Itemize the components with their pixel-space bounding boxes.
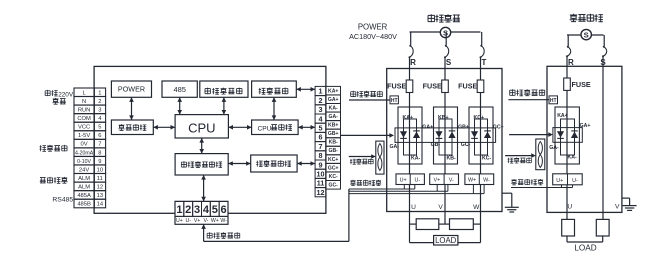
svg-text:1: 1 [98,90,101,96]
svg-text:S: S [446,58,452,67]
svg-text:KA+: KA+ [557,113,568,119]
svg-text:KC+: KC+ [328,157,338,163]
svg-text:KC-: KC- [482,155,491,161]
svg-text:U-: U- [572,178,578,184]
svg-text:5: 5 [98,125,101,131]
svg-text:4-20mA: 4-20mA [75,150,94,156]
svg-text:FUSE: FUSE [423,82,442,91]
svg-text:HT: HT [550,98,557,104]
svg-text:GA-: GA- [390,144,400,150]
svg-text:GA+: GA+ [422,125,433,131]
svg-text:3: 3 [98,108,101,114]
svg-text:0-10V: 0-10V [77,159,91,165]
svg-text:U-: U- [185,218,191,224]
svg-text:LOAD: LOAD [435,236,457,245]
svg-text:W+: W+ [468,178,476,184]
svg-text:4: 4 [319,114,323,123]
svg-text:ALM: ALM [78,185,90,191]
svg-text:VCC: VCC [78,125,90,131]
svg-text:U: U [411,204,416,211]
svg-text:KC+: KC+ [474,115,485,121]
svg-text:RUN: RUN [78,108,91,114]
svg-text:W: W [473,204,480,211]
svg-text:RS485: RS485 [52,197,73,204]
svg-text:220V: 220V [58,91,74,98]
svg-text:KB-: KB- [329,140,338,146]
svg-text:KC-: KC- [329,174,338,180]
svg-text:V+: V+ [434,178,441,184]
svg-text:11: 11 [97,176,103,182]
svg-text:12: 12 [317,188,325,197]
svg-text:2: 2 [98,99,101,105]
svg-text:AC180V~480V: AC180V~480V [349,32,397,41]
svg-text:N: N [82,99,86,105]
svg-text:485A: 485A [77,193,91,199]
svg-text:485: 485 [173,85,186,94]
svg-text:7: 7 [98,142,101,148]
svg-text:U+: U+ [400,178,407,184]
svg-text:KA+: KA+ [328,88,338,94]
svg-text:V: V [615,204,620,211]
svg-text:KB+: KB+ [438,115,449,121]
svg-text:FUSE: FUSE [458,82,477,91]
svg-text:V: V [438,204,443,211]
svg-text:GA-: GA- [549,145,559,151]
svg-text:1-5V: 1-5V [78,133,90,139]
svg-text:GB+: GB+ [458,125,469,131]
svg-text:8: 8 [98,150,101,156]
svg-text:9: 9 [319,160,323,169]
svg-text:V+: V+ [194,218,201,224]
svg-text:GB-: GB- [431,142,441,148]
svg-text:LOAD: LOAD [574,244,596,253]
svg-text:W-: W- [483,178,490,184]
svg-text:GA-: GA- [329,114,339,120]
svg-text:KA-: KA- [411,155,420,161]
svg-text:FUSE: FUSE [387,82,406,91]
svg-text:U+: U+ [556,178,563,184]
svg-text:U-: U- [414,178,420,184]
svg-text:W+: W+ [211,218,219,224]
svg-text:9: 9 [98,159,101,165]
svg-text:U: U [567,204,572,211]
svg-text:2: 2 [319,96,323,105]
svg-text:3: 3 [194,204,200,216]
svg-text:4: 4 [203,204,210,216]
svg-text:14: 14 [97,202,104,208]
svg-text:KB+: KB+ [328,123,338,129]
svg-text:S: S [443,28,448,37]
svg-text:8: 8 [319,151,323,160]
svg-text:GC-: GC- [329,183,339,189]
svg-text:7: 7 [319,142,323,151]
svg-text:3: 3 [319,105,323,114]
svg-text:2: 2 [185,204,191,216]
svg-text:FUSE: FUSE [572,80,591,89]
svg-text:10: 10 [317,170,325,179]
svg-text:POWER: POWER [358,23,388,32]
svg-text:CPU: CPU [188,120,215,135]
svg-text:KA+: KA+ [403,115,414,121]
svg-text:485B: 485B [77,202,91,208]
svg-text:W-: W- [220,218,227,224]
svg-text:6: 6 [221,204,227,216]
svg-text:HT: HT [391,98,398,104]
svg-text:CPU: CPU [258,126,272,133]
svg-text:24V: 24V [79,167,89,173]
svg-text:1: 1 [319,87,323,96]
svg-text:1: 1 [176,204,182,216]
svg-text:KA-: KA- [329,106,338,112]
svg-text:GC+: GC+ [493,125,504,131]
svg-text:T: T [482,58,487,67]
svg-text:0V: 0V [81,142,88,148]
svg-text:ALM: ALM [78,176,90,182]
svg-text:COM: COM [77,116,91,122]
svg-text:5: 5 [319,124,323,133]
svg-text:13: 13 [97,193,103,199]
svg-text:KA-: KA- [568,154,577,160]
svg-text:V-: V- [449,178,454,184]
svg-text:V-: V- [203,218,208,224]
svg-text:11: 11 [317,179,325,188]
svg-text:6: 6 [98,133,101,139]
svg-text:10: 10 [97,167,103,173]
svg-text:GB-: GB- [329,148,339,154]
svg-text:POWER: POWER [118,85,145,94]
svg-text:R: R [410,58,416,67]
svg-text:S: S [584,30,589,39]
svg-text:GC-: GC- [461,142,471,148]
svg-text:GA+: GA+ [580,123,591,129]
svg-text:GB+: GB+ [328,131,339,137]
svg-text:GC+: GC+ [328,165,339,171]
svg-text:6: 6 [319,133,323,142]
svg-text:KB-: KB- [447,155,456,161]
svg-text:U+: U+ [176,218,183,224]
svg-text:12: 12 [97,185,103,191]
svg-text:GA+: GA+ [328,97,339,103]
svg-text:5: 5 [212,204,218,216]
